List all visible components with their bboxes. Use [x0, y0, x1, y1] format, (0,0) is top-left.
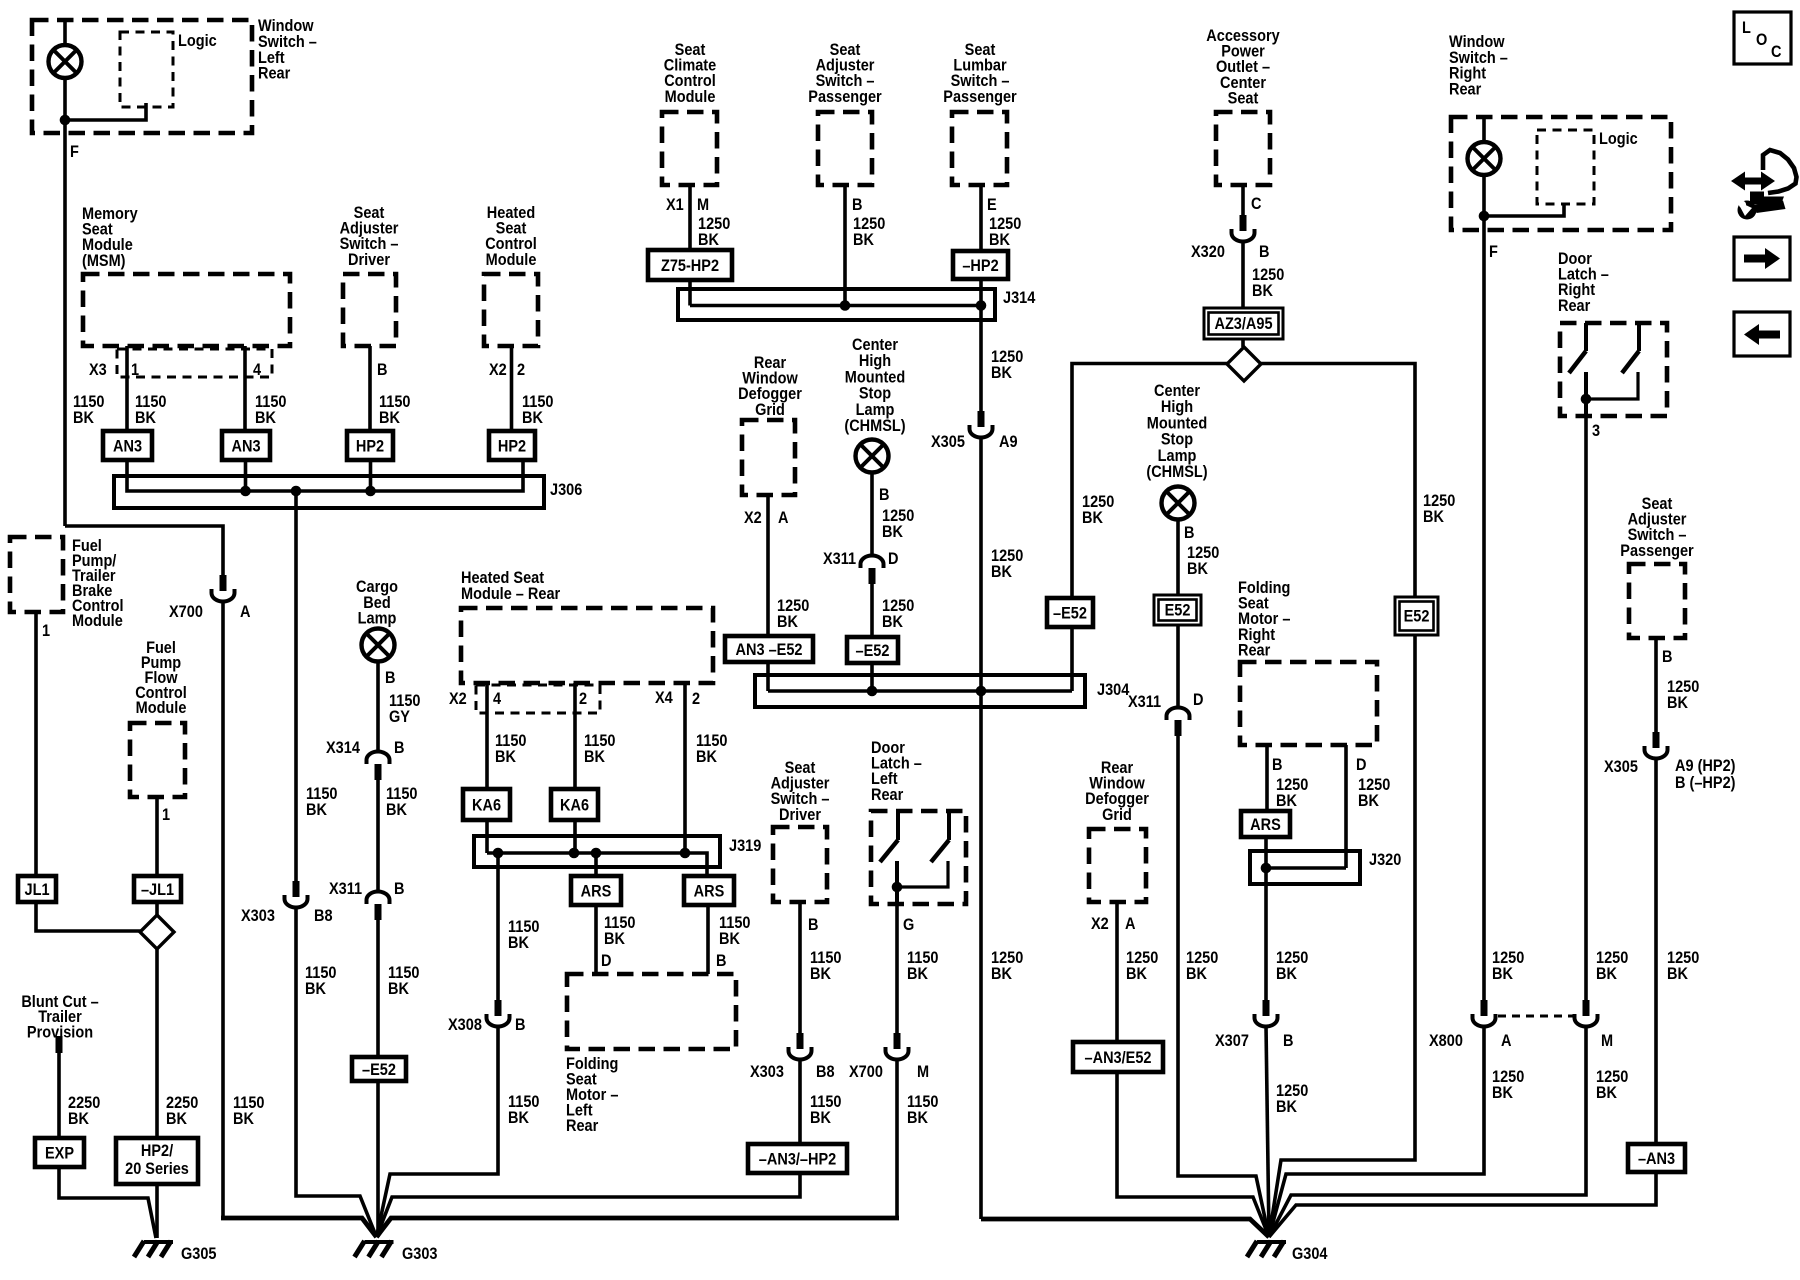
svg-text:Driver: Driver [779, 806, 821, 824]
svg-text:J314: J314 [1003, 289, 1036, 307]
connector X308 cavity B [487, 1000, 510, 1027]
svg-text:Module: Module [72, 612, 123, 630]
svg-text:D: D [601, 952, 611, 970]
svg-text:Passenger: Passenger [1620, 542, 1693, 560]
connector X307 cavity B [1255, 1000, 1278, 1027]
switch right lower contact to junction [1586, 372, 1638, 399]
cavity D label [888, 550, 898, 568]
lamp - cargo bed lamp [362, 629, 395, 662]
svg-text:BK: BK [810, 1109, 832, 1127]
wire label 1250 BK (below X311-D) [882, 597, 914, 615]
svg-text:X2: X2 [744, 509, 762, 527]
svg-text:B: B [1184, 524, 1194, 542]
pin B label [852, 196, 862, 214]
accessory power outlet box [1216, 112, 1270, 185]
rear window defogger grid (left) label [754, 354, 786, 372]
wire CHMSL left to X311 [870, 472, 874, 555]
door latch - left rear box [871, 811, 966, 904]
wire door latch G to X700-M [895, 904, 899, 1033]
svg-text:X305: X305 [1604, 758, 1638, 776]
wire stub above right lamp [1482, 117, 1486, 143]
svg-text:BK: BK [388, 980, 410, 998]
fuel pump flow control module label [146, 639, 176, 657]
terminal AN3 (MSM pin4) [222, 431, 270, 460]
node switch junction (right latch) [1581, 394, 1592, 405]
terminal JL1 [18, 876, 56, 902]
node on J304 (-E52 drop) [867, 686, 878, 697]
cavity B label [394, 880, 404, 898]
node junction lamp/logic [60, 115, 71, 126]
svg-text:20 Series: 20 Series [125, 1160, 189, 1178]
wire J319 drop to X308 [496, 853, 500, 1000]
connector X303 cavity B8 (right) [789, 1033, 812, 1060]
svg-text:BK: BK [1596, 965, 1618, 983]
svg-text:B: B [1272, 756, 1282, 774]
svg-text:BK: BK [1126, 965, 1148, 983]
wire fuel pump flow to -JL1 and splice diamond [155, 797, 159, 917]
wire junction to logic pin [65, 103, 146, 120]
blunt cut - trailer provision label [21, 993, 99, 1011]
LOC legend box [1734, 12, 1791, 64]
connector X4 label [655, 689, 673, 707]
folding seat motor - left rear box [567, 974, 736, 1049]
svg-text:BK: BK [73, 409, 95, 427]
wire label 1150 BK (ARS right) [719, 914, 750, 932]
wire X305-A9 through J304 down to G304 [979, 437, 983, 1219]
svg-text:X307: X307 [1215, 1032, 1249, 1050]
splice pack J306 outline [114, 476, 544, 508]
wire label 1250 BK (climate) [698, 215, 730, 233]
terminal E52 (CHMSL right) [1154, 595, 1201, 625]
cavity A label [778, 509, 788, 527]
terminal AZ3/A95 [1204, 308, 1283, 339]
pin B label (CHMSL right) [1184, 524, 1194, 542]
svg-text:Grid: Grid [755, 401, 785, 419]
svg-text:A: A [1125, 915, 1135, 933]
wire label 1250 BK (below J304) [991, 949, 1023, 967]
wire label 1150 BK (above X303-B8) [810, 949, 841, 967]
node on J319 (KA6 right) [569, 848, 580, 859]
svg-text:M: M [917, 1063, 929, 1081]
cavity A9 label [999, 433, 1018, 451]
svg-text:O: O [1756, 31, 1767, 49]
logic label [178, 32, 217, 50]
svg-text:Logic: Logic [1599, 130, 1638, 148]
svg-text:GY: GY [389, 708, 411, 726]
window switch - right rear box [1451, 117, 1671, 230]
connector X800 A-M dashed link [1498, 1015, 1577, 1018]
svg-text:Passenger: Passenger [943, 88, 1016, 106]
svg-text:X800: X800 [1429, 1032, 1463, 1050]
seat adjuster switch driver box (bottom) [773, 827, 827, 902]
terminal EXP [35, 1138, 84, 1167]
pin B label [1662, 648, 1672, 666]
svg-text:J306: J306 [550, 481, 583, 499]
fuel pump/trailer brake control module label [72, 537, 102, 555]
wire pin F out of window switch left [63, 120, 67, 526]
terminal HP2 (heated seat) [489, 431, 535, 460]
wire AZ3/A95 to splice diamond [1241, 339, 1245, 347]
wire -E52 into J304 [870, 663, 874, 691]
wire motor D into J320 [1344, 745, 1348, 868]
svg-text:Passenger: Passenger [808, 88, 881, 106]
logic block - window switch left rear [120, 32, 173, 107]
terminal HP2/20 Series [116, 1138, 198, 1184]
switch right contact upper [947, 811, 951, 840]
wire X311-D right to G304 [1178, 736, 1269, 1237]
svg-text:1: 1 [42, 622, 50, 640]
svg-text:X305: X305 [931, 433, 965, 451]
wire label 1150 BK (below X311-B) [388, 964, 419, 982]
wire label 1250 BK (left rail) [1082, 493, 1114, 511]
svg-text:AN3: AN3 [113, 437, 142, 455]
folding seat motor - left rear label [566, 1055, 618, 1073]
svg-text:X314: X314 [326, 739, 360, 757]
svg-text:BK: BK [1082, 509, 1104, 527]
svg-text:Module – Rear: Module – Rear [461, 585, 560, 603]
svg-text:Rear: Rear [1238, 642, 1270, 660]
svg-text:KA6: KA6 [472, 796, 501, 814]
node on J306 (AN3-2) [240, 486, 251, 497]
connector X303 cavity B8 (left) [285, 881, 308, 908]
lamp - window switch left rear indicator [49, 45, 82, 78]
cavity M label [917, 1063, 929, 1081]
wire X314 to X311 [376, 780, 380, 891]
wire AN3-2 into J306 [244, 460, 248, 491]
svg-text:Module: Module [136, 699, 187, 717]
svg-text:E52: E52 [1404, 608, 1430, 626]
svg-text:D: D [888, 550, 898, 568]
svg-text:X311: X311 [823, 550, 856, 568]
svg-text:–E52: –E52 [362, 1061, 396, 1079]
cavity D label [1193, 691, 1203, 709]
svg-text:X308: X308 [448, 1016, 482, 1034]
svg-text:BK: BK [604, 930, 626, 948]
pin B label [716, 952, 726, 970]
connector X305 cavity A9 [970, 411, 993, 438]
wire X320 to AZ3/A95 [1241, 241, 1245, 308]
svg-text:D: D [1193, 691, 1203, 709]
wire label 1250 BK (X320) [1252, 266, 1284, 284]
wire label 1150 BK (above X700-M) [907, 949, 938, 967]
svg-text:B: B [394, 880, 404, 898]
svg-text:BK: BK [907, 965, 929, 983]
wire Z75-HP2 into J314 [688, 280, 692, 306]
connector X700 label [169, 603, 203, 621]
svg-text:M: M [697, 196, 709, 214]
svg-text:–E52: –E52 [1053, 604, 1087, 622]
connector X305 cavity A9/B (right) [1645, 732, 1668, 759]
svg-text:1: 1 [162, 806, 170, 824]
wire stub above lamp [63, 20, 67, 46]
fuel pump flow control module box [130, 723, 185, 797]
connector X2 label [1091, 915, 1109, 933]
svg-text:BK: BK [305, 980, 327, 998]
svg-text:C: C [1771, 43, 1781, 61]
wire MSM pin 4 to AN3 [243, 346, 247, 431]
svg-text:(CHMSL): (CHMSL) [1146, 463, 1207, 481]
svg-text:BK: BK [882, 523, 904, 541]
switch left contact upper (door latch left) [896, 811, 900, 840]
node on J306 (center drop) [291, 486, 302, 497]
rear window defogger grid (right) label [1101, 759, 1133, 777]
wire J319 drop to ARS left [594, 853, 598, 876]
svg-text:Rear: Rear [1558, 297, 1590, 315]
svg-text:Module: Module [486, 251, 537, 269]
svg-text:–JL1: –JL1 [141, 881, 174, 899]
wire label 1150 BK (X314-X311) [386, 785, 417, 803]
svg-text:BK: BK [1358, 792, 1380, 810]
connector X311 cavity D (left) [861, 556, 884, 585]
svg-text:B8: B8 [816, 1063, 835, 1081]
connector X303 label [750, 1063, 784, 1081]
cargo bed lamp label [356, 578, 398, 596]
wire blunt cut to EXP and G305 [59, 1053, 156, 1238]
wire ARS left to folding seat motor D [594, 905, 598, 974]
splice diamond accessory power [1227, 347, 1261, 381]
svg-text:BK: BK [522, 409, 544, 427]
svg-text:BK: BK [1423, 508, 1445, 526]
seat lumbar switch passenger label [965, 41, 996, 59]
ground G304 [1247, 1241, 1286, 1257]
wire label 1250 BK (below X800-M) [1596, 1068, 1628, 1086]
svg-text:3: 3 [1592, 422, 1600, 440]
splice pack J320 outline [1250, 851, 1360, 884]
wire motor B to ARS [1265, 745, 1269, 811]
wire label 1150 BK (below X308) [508, 1093, 539, 1111]
svg-text:BK: BK [379, 409, 401, 427]
svg-text:B: B [808, 916, 818, 934]
svg-text:BK: BK [495, 748, 517, 766]
wire label 1250 BK (motor D) [1358, 776, 1390, 794]
wire label 1250 BK (X305 to J304) [991, 547, 1023, 565]
svg-text:B: B [1662, 648, 1672, 666]
logic label (right) [1599, 130, 1638, 148]
wire diamond left rail into J304 [1072, 364, 1227, 692]
connector X700 cavity A [212, 575, 235, 602]
cavity B label [394, 739, 404, 757]
wire label 1250 BK (lumbar) [989, 215, 1021, 233]
wire CHMSL right to E52 [1176, 519, 1180, 595]
svg-text:B: B [716, 952, 726, 970]
wire ARS through J320 to X307 [1264, 837, 1268, 1000]
connector X311 cavity D (right) [1167, 708, 1190, 737]
wire label 1250 BK (above X800-A) [1492, 949, 1524, 967]
svg-text:X4: X4 [655, 689, 673, 707]
svg-text:BK: BK [907, 1109, 929, 1127]
J306 label [550, 481, 583, 499]
wire label 1250 BK (motor B) [1276, 776, 1308, 794]
wire X2-4 to KA6 [485, 683, 489, 789]
terminal KA6 (right) [551, 789, 598, 820]
rear window defogger grid (right) box [1089, 829, 1146, 902]
svg-text:X303: X303 [750, 1063, 784, 1081]
wire label 1150 BK (below X303) [305, 964, 336, 982]
wire label 1150 BK (above X303) [306, 785, 337, 803]
svg-text:BK: BK [1252, 282, 1274, 300]
splice pack J319 outline [474, 836, 720, 867]
wire label 1150 BK (pin 4) [255, 393, 286, 411]
terminal AN3 (MSM pin1) [103, 431, 152, 460]
splice pack J314 internal bus [690, 304, 981, 308]
node on J319 (ARS left drop) [591, 848, 602, 859]
svg-text:Rear: Rear [1449, 81, 1481, 99]
wire X700-A down to G303 [221, 601, 225, 1218]
terminal -JL1 [134, 876, 181, 902]
wire label 1250 BK (below J314) [991, 348, 1023, 366]
terminal ARS (left rear motor D) [571, 876, 621, 905]
terminal -AN3 [1628, 1144, 1685, 1172]
wire X311-D to -E52 [870, 584, 874, 637]
wire label 1150 BK (below X303-B8) [810, 1093, 841, 1111]
cavity A label [240, 603, 250, 621]
connector X311 label [1128, 693, 1161, 711]
wire label 1150 BK (ARS left) [604, 914, 635, 932]
wire adjuster passenger right to X305 [1654, 638, 1658, 732]
wire label 1250 BK (adjuster passenger) [853, 215, 885, 233]
svg-text:Seat: Seat [1228, 90, 1259, 108]
svg-text:(CHMSL): (CHMSL) [844, 417, 905, 435]
seat adjuster switch passenger (right) label [1642, 495, 1673, 513]
wire label 1150 BK (X2-2) [584, 732, 615, 750]
lamp - window switch right rear indicator [1468, 142, 1501, 175]
connector X307 label [1215, 1032, 1249, 1050]
pin B label [808, 916, 818, 934]
svg-text:Grid: Grid [1102, 806, 1132, 824]
connector X314 label [326, 739, 360, 757]
J314 label [1003, 289, 1036, 307]
wire X307 to ground G304 [1266, 1026, 1269, 1237]
svg-text:X1: X1 [666, 196, 684, 214]
svg-text:X700: X700 [169, 603, 203, 621]
memory seat module (MSM) label [82, 205, 138, 223]
svg-text:F: F [70, 143, 79, 161]
switch right contact upper [1637, 323, 1641, 351]
cavity A label [1125, 915, 1135, 933]
svg-text:BK: BK [1492, 965, 1514, 983]
heated seat control module box [484, 274, 538, 346]
center high mounted stop lamp (CHMSL) right label [1154, 382, 1200, 400]
svg-text:HP2/: HP2/ [141, 1142, 174, 1160]
svg-text:X311: X311 [329, 880, 362, 898]
pin 4 label [493, 690, 501, 708]
navigation icon - double arrow with outline and wrench [1731, 150, 1797, 220]
wire label 1250 BK (below X307) [1276, 1082, 1308, 1100]
svg-text:J319: J319 [729, 837, 762, 855]
memory seat module (MSM) box [83, 274, 290, 346]
svg-text:4: 4 [493, 690, 501, 708]
wire X303 to G303 [296, 907, 377, 1237]
window switch - left rear label [258, 17, 314, 35]
connector X303 label [241, 907, 275, 925]
connector X2 label [449, 690, 467, 708]
node on J304 (X305 line) [976, 686, 987, 697]
cavity M label [1601, 1032, 1613, 1050]
svg-text:B: B [1283, 1032, 1293, 1050]
svg-text:C: C [1251, 195, 1261, 213]
svg-text:BK: BK [255, 409, 277, 427]
J304 label [1097, 681, 1130, 699]
seat adjuster switch driver label (bottom) [785, 759, 816, 777]
wire label 1250 BK (above X307) [1276, 949, 1308, 967]
connector X2 label [744, 509, 762, 527]
wire -HP2 through J314 to X305 [979, 279, 983, 415]
fuel pump/trailer brake control module box [10, 537, 63, 612]
ground G303 [355, 1241, 394, 1257]
terminal ARS (right rear motor) [1241, 811, 1290, 837]
switch left blade [1569, 351, 1586, 373]
connector X800 cavity M [1575, 1000, 1598, 1027]
ground G305 label [181, 1245, 217, 1263]
cavity B label [515, 1016, 525, 1034]
cavity B label [1259, 243, 1269, 261]
connector X311 label [823, 550, 856, 568]
wire label 1250 BK (CHMSL right) [1187, 544, 1219, 562]
cavity A label [1501, 1032, 1511, 1050]
svg-text:2: 2 [517, 361, 525, 379]
pin B label (cargo lamp) [385, 669, 395, 687]
seat adjuster switch passenger (top) box [818, 112, 872, 185]
seat lumbar switch passenger box [952, 112, 1007, 185]
switch right blade [931, 840, 949, 862]
connector X700 cavity M [886, 1033, 909, 1060]
node on J306 (HP2-1) [365, 486, 376, 497]
svg-text:M: M [1601, 1032, 1613, 1050]
wire door latch right pin 3 to X800-M [1584, 416, 1588, 1000]
pin C label [1251, 195, 1261, 213]
splice diamond fuel pump [140, 915, 174, 949]
wire label 1150 BK (below X700-M) [907, 1093, 938, 1111]
splice pack J314 outline [678, 289, 995, 320]
wire label 1150 GY [389, 692, 420, 710]
pin B label (CHMSL left) [879, 486, 889, 504]
wire label 1250 BK (defogger left) [777, 597, 809, 615]
svg-text:BK: BK [989, 231, 1011, 249]
wire X800-M to G304 [1269, 1026, 1586, 1237]
terminal -E52 (CHMSL left) [847, 637, 898, 663]
svg-text:BK: BK [68, 1110, 90, 1128]
svg-text:BK: BK [1276, 965, 1298, 983]
wire label 1150 BK (X2-4) [495, 732, 526, 750]
svg-text:J304: J304 [1097, 681, 1130, 699]
wire F-line across to X700 [65, 526, 223, 575]
pin F label (right) [1489, 243, 1498, 261]
seat climate control module box [662, 112, 717, 185]
svg-text:B8: B8 [314, 907, 333, 925]
wire junction to right logic pin [1484, 203, 1564, 216]
terminal -AN3/-HP2 [748, 1144, 847, 1173]
connector X305 label [1604, 758, 1638, 776]
wire KA6 left into J319 [485, 820, 489, 853]
svg-text:A: A [1501, 1032, 1511, 1050]
terminal -AN3/E52 [1073, 1042, 1163, 1072]
terminal Z75-HP2 [648, 250, 732, 280]
svg-text:B: B [515, 1016, 525, 1034]
seat adjuster switch passenger (right) box [1629, 564, 1685, 638]
seat adjuster switch passenger (top) label [830, 41, 861, 59]
node on J314 (adjuster passenger) [840, 300, 851, 311]
wire seat adjuster driver to HP2 [368, 346, 372, 431]
svg-text:BK: BK [1596, 1084, 1618, 1102]
svg-text:ARS: ARS [581, 882, 612, 900]
pin 4 label [253, 361, 261, 379]
svg-text:(MSM): (MSM) [82, 252, 126, 270]
svg-text:BK: BK [1187, 560, 1209, 578]
connector X320 label [1191, 243, 1225, 261]
heated seat module - rear box [461, 608, 713, 683]
splice pack J306 internal bus [127, 460, 523, 491]
wire J306 drop to X303 [294, 491, 298, 881]
